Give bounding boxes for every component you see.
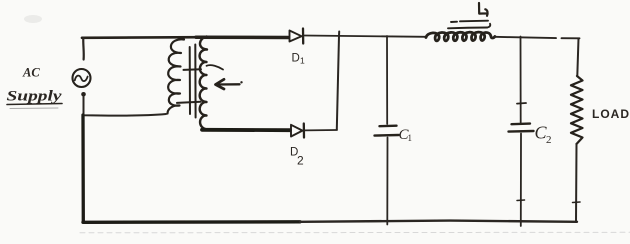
capacitor C1 bottom lead — [386, 138, 388, 225]
capacitor C2 — [512, 122, 531, 125]
scan shadow line bottom — [80, 231, 630, 234]
wire AC source top lead — [82, 38, 85, 60]
transformer core — [189, 47, 191, 114]
wire D1 cathode to L (top rail thin) — [305, 36, 427, 37]
capacitor C1 top lead — [386, 36, 388, 124]
capacitor C2 top lead — [520, 37, 522, 123]
node terminal dot below source — [81, 92, 86, 97]
secondary coil flourish — [207, 65, 224, 69]
svg-text:Supply: Supply — [7, 89, 62, 105]
capacitor C1 — [380, 124, 397, 127]
capacitor C2 bottom lead — [520, 134, 522, 227]
load resistor zigzag — [571, 76, 583, 144]
diode D1 — [290, 31, 302, 42]
inductor core bars — [451, 21, 488, 22]
transformer secondary winding — [200, 37, 208, 130]
wire bottom rail — [83, 220, 300, 224]
svg-text:AC: AC — [22, 66, 40, 80]
wire L to load corner — [495, 37, 580, 39]
ac source (AC supply) — [73, 69, 91, 87]
label L — [479, 3, 488, 16]
svg-text:LOAD: LOAD — [592, 107, 630, 121]
svg-text:1: 1 — [300, 56, 305, 66]
wire top rail from AC supply to D1 — [82, 36, 200, 39]
wire secondary bottom to D2 (thick) — [202, 128, 290, 132]
center tap arrow — [216, 83, 240, 85]
svg-text:2: 2 — [546, 134, 552, 146]
wire left vertical down to bottom rail — [81, 115, 85, 222]
load resistor bottom lead — [575, 144, 578, 222]
svg-text:2: 2 — [297, 154, 304, 168]
wire AC source bottom lead to primary — [84, 97, 167, 116]
svg-text:D: D — [292, 53, 300, 65]
scan smudge top-left — [24, 15, 42, 23]
wire D2 cathode to junction — [305, 129, 337, 131]
svg-text:1: 1 — [408, 133, 413, 143]
inductor L — [426, 32, 495, 41]
wire junction D1/D2 vertical — [337, 32, 339, 130]
diode D2 — [291, 125, 303, 137]
load resistor top lead — [577, 39, 578, 77]
transformer primary winding — [168, 39, 185, 113]
